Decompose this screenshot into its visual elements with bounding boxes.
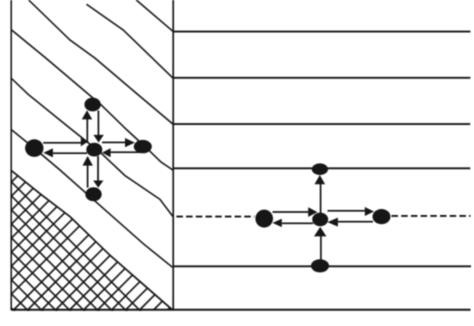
left cross right arrowhead into center dot bbox=[81, 138, 88, 147]
horizontal lattice line L4 bbox=[174, 167, 471, 169]
bottom border wire bbox=[11, 309, 471, 311]
right cross right arrowhead into right dot bbox=[365, 207, 374, 216]
right cross up arrowhead into center dot bbox=[314, 227, 326, 237]
right cross left arrowhead into center dot bbox=[327, 218, 338, 227]
right cross limb line: bottom-to-center bbox=[320, 236, 322, 260]
diagonal hatch line D4 bbox=[11, 30, 173, 171]
diagonal hatch line D1 bbox=[29, 0, 173, 124]
right cross left arrowhead into left dot bbox=[273, 219, 282, 227]
diagonal hatch line D3 bbox=[136, 0, 173, 31]
right cross limb line: right-to-center lower bbox=[338, 221, 373, 223]
slash grid lines bbox=[0, 160, 34, 310]
left cross limb line: bottom-to-center (up) bbox=[87, 165, 89, 187]
right cross right arrowhead into center dot bbox=[308, 207, 317, 217]
LEFT CROSS (stencil A) bbox=[25, 98, 152, 202]
left region right border wire bbox=[172, 0, 174, 310]
left cross down arrowhead into center dot bbox=[93, 135, 103, 143]
left cross limb line: center-to-top (up) bbox=[86, 119, 88, 143]
right cross limb line: center-to-right upper bbox=[328, 210, 365, 212]
left cross limb line: center-to-left lower bbox=[53, 152, 87, 154]
horizontal lattice line L3 bbox=[174, 123, 471, 125]
right cross limb line: left-to-center upper bbox=[273, 211, 309, 213]
diagonal hatch line D5 bbox=[11, 78, 173, 216]
left cross limb line: right-to-center lower bbox=[111, 151, 141, 153]
right cross center dot bbox=[312, 213, 328, 227]
left cross left arrowhead into center dot bbox=[102, 148, 111, 157]
left cross limb line: left-to-center upper bbox=[43, 142, 81, 144]
right cross right dot bbox=[373, 209, 391, 224]
left cross bottom dot bbox=[85, 187, 101, 201]
right cross up arrowhead into top dot bbox=[315, 175, 326, 184]
left cross limb line: center-to-bottom (down) bbox=[97, 156, 99, 181]
right cross top dot bbox=[312, 163, 328, 175]
left cross up arrowhead into center dot bbox=[83, 156, 93, 166]
RIGHT CROSS (stencil B) bbox=[255, 163, 390, 272]
left cross up arrowhead into top dot bbox=[82, 110, 92, 119]
diagonal hatch line D2 bbox=[87, 4, 173, 78]
left cross down arrowhead into bottom dot bbox=[93, 181, 103, 188]
cross-hatch grid in triangle bbox=[0, 160, 318, 326]
left cross right dot bbox=[134, 140, 152, 153]
horizontal lattice line L1 bbox=[174, 31, 471, 33]
left cross left dot bbox=[25, 139, 43, 157]
right cross limb line: center-to-left lower bbox=[282, 222, 313, 224]
left cross limb line: top-to-center (down) bbox=[98, 111, 100, 136]
right cross left dot bbox=[255, 210, 273, 228]
right cross bottom dot bbox=[311, 259, 329, 272]
left cross right arrowhead into right dot bbox=[125, 138, 135, 147]
left cross limb line: center-to-right upper bbox=[102, 142, 125, 144]
left cross left arrowhead into left dot bbox=[43, 148, 53, 157]
horizontal lattice line L6 bbox=[174, 265, 472, 267]
hypotenuse of cross-hatched triangle bbox=[11, 170, 172, 309]
dashed interface line left segment bbox=[176, 216, 254, 218]
right cross limb line: center-to-top bbox=[320, 184, 322, 213]
horizontal lattice line L2 bbox=[174, 77, 471, 79]
left cross top dot bbox=[84, 98, 100, 112]
diagonal hatch line D6 bbox=[11, 129, 173, 267]
left region left border wire bbox=[10, 0, 12, 310]
left cross center dot bbox=[86, 143, 102, 157]
backslash grid lines bbox=[0, 171, 180, 326]
dashed interface line right segment bbox=[392, 215, 471, 217]
